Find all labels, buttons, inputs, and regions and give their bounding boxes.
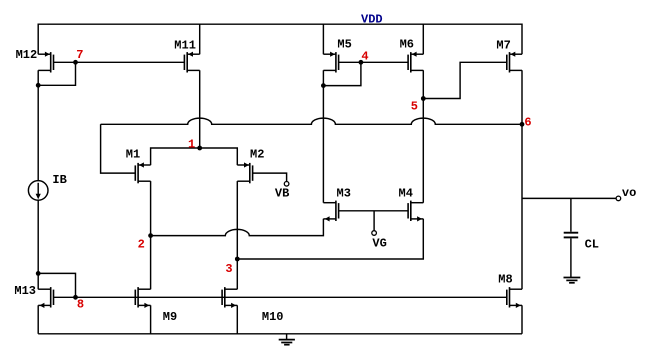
svg-text:vo: vo [622,186,636,200]
svg-text:M1: M1 [126,148,140,162]
wire M11 drain to node 1 [199,70,201,148]
nmos transistor M9 [135,287,150,308]
wire rail drop to M5 source [322,24,324,54]
wire M8 source drop [521,305,523,334]
svg-text:M11: M11 [174,38,196,52]
svg-text:1: 1 [188,138,195,152]
wire M5 drain to M3 drain vertical [322,70,324,203]
wire node 4 jog to M5 drain [323,62,361,85]
junction dot node 6 [520,122,525,127]
wire M7 drain - node6 - output - M8 drain [521,70,523,289]
svg-text:8: 8 [77,298,84,312]
svg-text:M5: M5 [337,37,351,51]
pmos transistor M2 [237,162,252,183]
svg-text:M13: M13 [14,284,36,298]
nmos transistor M10 [222,287,237,308]
wire node 8 jog from IB line [38,273,75,297]
svg-text:7: 7 [76,48,83,62]
junction dot node 5 [421,96,426,101]
svg-text:M8: M8 [498,272,512,286]
junction dot node 8 [73,295,78,300]
svg-text:M4: M4 [399,186,413,200]
svg-text:M10: M10 [262,310,284,324]
terminal VB [284,182,289,187]
pmos transistor M1 [135,162,150,183]
wire M2 drain - node3 - M10 drain [236,181,238,289]
wire VG tap [373,211,375,231]
svg-text:IB: IB [52,173,66,187]
wire node 3 to M4 source [237,219,423,259]
ground under CL [564,278,581,283]
wire output line to vo [522,197,616,199]
wire M12 drain down to IB [37,70,39,181]
wire M6 drain to M4 drain vertical [422,70,424,203]
wire VDD rail with end drops [38,24,522,54]
svg-text:3: 3 [225,262,232,276]
terminal vo [616,196,621,201]
pmos transistor M5 [323,52,338,73]
wire M1 drain - node2 - M9 drain [150,181,152,289]
svg-text:5: 5 [411,100,418,114]
svg-text:M6: M6 [400,37,414,51]
junction dot IB bottom junction [36,271,41,276]
junction dot M12 drain junction [36,83,41,88]
current source IB [28,181,48,201]
pmos transistor M12 [38,52,53,73]
svg-text:VB: VB [275,187,289,201]
wire M3-M4 gate line [339,210,408,212]
junction dot node 2 [148,233,153,238]
pmos transistor M6 [408,52,423,73]
nmos transistor M3 [323,201,338,222]
wire feedback line node6 to M1 gate with hops [101,118,522,124]
svg-text:M12: M12 [16,48,38,62]
wire node 4 gate line M5-M6 [339,61,408,63]
svg-text:M7: M7 [496,39,510,53]
svg-text:VDD: VDD [361,13,383,27]
junction dot node 7 [73,60,78,65]
nmos transistor M8 [507,287,522,308]
pmos transistor M7 [507,52,522,73]
wire CL bottom lead [570,238,572,277]
capacitor CL [564,233,579,238]
wire rail drop to M11 source [199,24,201,54]
junction dot node 4 [359,60,364,65]
junction dot M5 drain junction [321,83,326,88]
ground on bottom rail [279,334,295,345]
svg-text:2: 2 [138,238,145,252]
wire node 7 jog to M12 drain [38,62,75,85]
svg-text:4: 4 [361,49,368,63]
wire IB to junction to M13 drain [37,200,39,289]
wire M9 source drop [150,305,152,334]
wire bottom ground rail [38,333,522,335]
svg-text:CL: CL [585,238,599,252]
svg-text:6: 6 [524,116,531,130]
wire M13 source drop [37,305,39,334]
wire node 1 bar and source drops [151,148,238,165]
junction dot node 3 [235,257,240,262]
svg-text:M9: M9 [163,310,177,324]
wire node 8 gate bus M13-M9-M10-M8 [54,296,507,298]
terminal VG [372,231,377,236]
wire CL top lead [570,198,572,231]
svg-text:VG: VG [372,237,386,251]
wire M2 gate to VB terminal [253,173,287,181]
wire node 2 to M3 source with hop [151,219,324,236]
nmos transistor M13 [38,287,53,308]
pmos transistor M11 [184,52,199,73]
wire rail drop to M6 source [422,24,424,54]
junction dot node 1 [197,146,202,151]
wire M10 source drop [236,305,238,334]
nmos transistor M4 [408,201,423,222]
svg-text:M3: M3 [337,186,351,200]
svg-text:M2: M2 [250,148,264,162]
wire node 5 to M7 gate [423,62,506,98]
wire M1 gate from feedback line [101,124,136,173]
wire node 7 gate line M12-M11 [54,61,185,63]
